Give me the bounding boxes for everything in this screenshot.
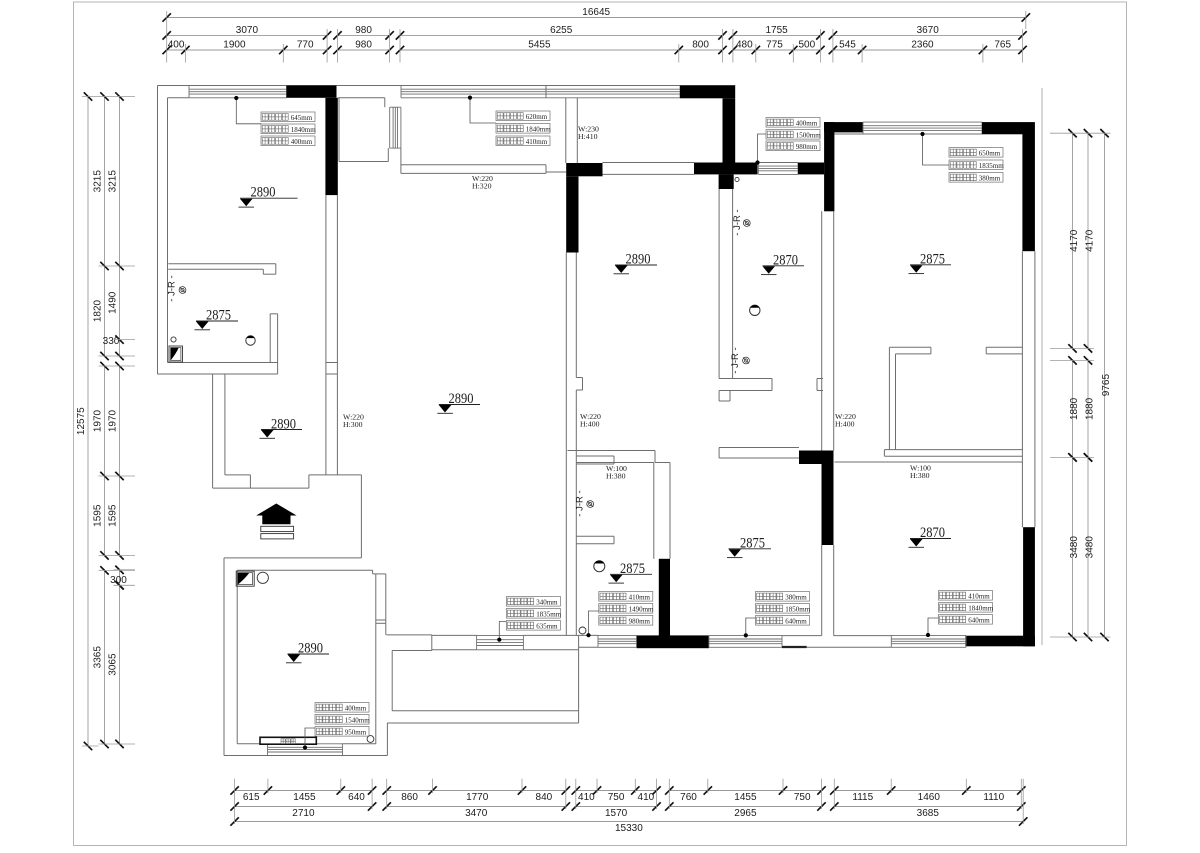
svg-text:775: 775 bbox=[766, 40, 783, 51]
column B1 black bbox=[287, 86, 337, 98]
right dimension extension lines bbox=[1050, 132, 1111, 134]
svg-text:2710: 2710 bbox=[292, 808, 315, 819]
svg-text:635mm: 635mm bbox=[536, 622, 558, 630]
right dimension overall 9765 bbox=[1104, 133, 1106, 637]
svg-text:12575: 12575 bbox=[76, 407, 87, 435]
bathroom1 door symbol bbox=[169, 346, 183, 362]
right dimension outer chains 4170 1880 3480 bbox=[1087, 133, 1089, 348]
svg-text:650mm: 650mm bbox=[979, 149, 1001, 157]
svg-text:1455: 1455 bbox=[293, 792, 316, 803]
svg-text:1840mm: 1840mm bbox=[526, 125, 551, 133]
labels window W11 bbox=[506, 597, 560, 607]
svg-text:860: 860 bbox=[401, 792, 418, 803]
right outer auxiliary line bbox=[1041, 88, 1043, 645]
wall central notch bbox=[576, 377, 582, 379]
svg-text:645mm: 645mm bbox=[291, 114, 313, 122]
left dimension inner chain bbox=[119, 97, 121, 357]
column B8 black bbox=[799, 451, 834, 465]
svg-text:840: 840 bbox=[536, 792, 553, 803]
labels window W5 bbox=[949, 148, 1003, 158]
column B9 black T bbox=[637, 635, 709, 648]
svg-text:1490mm: 1490mm bbox=[629, 605, 654, 613]
svg-text:1970: 1970 bbox=[93, 409, 104, 432]
wall bedroom3-4 divider pair lower bbox=[821, 545, 823, 636]
svg-text:410mm: 410mm bbox=[968, 592, 990, 600]
top wall inner line left section bbox=[168, 97, 190, 99]
bottom wall thin segments bbox=[782, 635, 822, 637]
svg-text:16645: 16645 bbox=[582, 7, 610, 18]
svg-text:H:410: H:410 bbox=[578, 132, 598, 141]
kitchen left wall line bbox=[400, 148, 402, 173]
svg-text:6255: 6255 bbox=[550, 25, 573, 36]
labels window W7 bbox=[599, 592, 653, 602]
svg-text:1110: 1110 bbox=[983, 792, 1004, 803]
bathroom1 right wall stub bbox=[269, 314, 271, 363]
svg-text:980: 980 bbox=[355, 25, 372, 36]
svg-text:3480: 3480 bbox=[1069, 536, 1080, 559]
svg-text:1500mm: 1500mm bbox=[796, 131, 821, 139]
svg-text:1755: 1755 bbox=[765, 25, 788, 36]
svg-text:1595: 1595 bbox=[93, 504, 104, 527]
top dimension row 3 bbox=[167, 49, 327, 51]
svg-text:5455: 5455 bbox=[528, 40, 551, 51]
svg-text:640mm: 640mm bbox=[785, 617, 807, 625]
svg-text:400mm: 400mm bbox=[345, 704, 367, 712]
column B2 black bbox=[680, 86, 735, 99]
svg-text:330: 330 bbox=[103, 336, 120, 347]
entry hall right wall bbox=[309, 474, 362, 476]
window kitchen W2 top bbox=[401, 85, 546, 87]
bottom dimension row 1 bbox=[235, 790, 373, 792]
svg-text:1840mm: 1840mm bbox=[968, 604, 993, 612]
svg-text:3215: 3215 bbox=[93, 170, 104, 193]
left exterior wall bbox=[157, 86, 159, 375]
window bedroom4 W9 bbox=[891, 634, 966, 636]
window dining W4 980 sill bbox=[758, 162, 798, 164]
svg-text:1900: 1900 bbox=[223, 40, 246, 51]
window W2b top continuation bbox=[546, 85, 680, 87]
svg-text:765: 765 bbox=[994, 40, 1011, 51]
bathroom1 bottom wall bbox=[168, 362, 278, 364]
svg-text:380mm: 380mm bbox=[979, 174, 1001, 182]
right dimension inner chains 4170 1880 3480 bbox=[1072, 133, 1074, 348]
svg-text:4170: 4170 bbox=[1069, 229, 1080, 252]
column B10 black right bottom corner bbox=[1023, 527, 1035, 646]
bedroom2 ceiling circle bbox=[750, 305, 760, 315]
svg-text:H:320: H:320 bbox=[472, 182, 492, 191]
bathroom2 right walls bbox=[669, 463, 671, 559]
window top-left W1 1900 bbox=[189, 85, 287, 87]
entrance arrow bbox=[256, 504, 296, 525]
svg-text:800: 800 bbox=[692, 40, 709, 51]
svg-text:750: 750 bbox=[608, 792, 625, 803]
svg-text:400mm: 400mm bbox=[796, 119, 818, 127]
bathroom1 top wall bbox=[168, 263, 275, 265]
bottom dimension extension lines bbox=[267, 779, 269, 793]
svg-text:1970: 1970 bbox=[108, 409, 119, 432]
bathroom2 opening lines lower bbox=[576, 535, 614, 537]
svg-text:760: 760 bbox=[680, 792, 697, 803]
svg-text:3065: 3065 bbox=[108, 653, 119, 676]
svg-text:- J-R -: - J-R - bbox=[575, 490, 586, 516]
svg-text:750: 750 bbox=[794, 792, 811, 803]
svg-text:2965: 2965 bbox=[734, 808, 757, 819]
svg-text:545: 545 bbox=[839, 40, 856, 51]
svg-text:640mm: 640mm bbox=[968, 616, 990, 624]
top dimension extension lines bbox=[166, 44, 168, 63]
bottom wall thick segment bbox=[782, 646, 807, 648]
svg-text:4170: 4170 bbox=[1085, 229, 1096, 252]
svg-text:3480: 3480 bbox=[1085, 536, 1096, 559]
closet walls right block bbox=[888, 347, 890, 449]
svg-text:340mm: 340mm bbox=[536, 598, 558, 606]
labels window W9 bbox=[939, 591, 993, 601]
svg-text:3215: 3215 bbox=[108, 170, 119, 193]
exterior top wall outer line bbox=[158, 85, 736, 87]
bay window W3 vertical bbox=[389, 107, 391, 148]
svg-text:H:380: H:380 bbox=[606, 472, 626, 481]
svg-text:1835mm: 1835mm bbox=[979, 162, 1004, 170]
labels window W8 bbox=[756, 592, 810, 602]
column B5 black with arm bbox=[824, 122, 834, 211]
labels window W4 bbox=[766, 118, 820, 128]
bathroom2 top wall bbox=[568, 450, 656, 452]
entry door symbol bbox=[236, 571, 254, 586]
svg-text:400mm: 400mm bbox=[291, 138, 313, 146]
svg-text:1880: 1880 bbox=[1085, 397, 1096, 420]
column B7 black kitchen right bbox=[566, 163, 602, 176]
corridor right wall pair bbox=[325, 195, 327, 475]
svg-text:410mm: 410mm bbox=[526, 138, 548, 146]
bedroom2 drain circle bbox=[735, 177, 739, 181]
svg-text:1835mm: 1835mm bbox=[536, 610, 561, 618]
svg-text:620mm: 620mm bbox=[526, 113, 548, 121]
wall bedroom2 bottom bbox=[719, 378, 772, 380]
svg-text:3670: 3670 bbox=[917, 25, 940, 36]
svg-text:1880: 1880 bbox=[1069, 397, 1080, 420]
wall segment left of W7 bbox=[579, 634, 598, 636]
right exterior wall thin section bbox=[1021, 251, 1023, 527]
bottom dimension row 2 bbox=[235, 806, 373, 808]
svg-text:980mm: 980mm bbox=[796, 143, 818, 151]
bay recess outline bbox=[338, 97, 385, 99]
svg-text:1540mm: 1540mm bbox=[345, 716, 370, 724]
bathroom2 toilet bbox=[594, 561, 605, 572]
svg-text:1460: 1460 bbox=[918, 792, 941, 803]
svg-text:15330: 15330 bbox=[615, 823, 643, 834]
wall notch bedroom2 right bbox=[817, 378, 823, 380]
svg-text:615: 615 bbox=[243, 792, 260, 803]
svg-text:380mm: 380mm bbox=[785, 593, 807, 601]
wall kitchen right divider pair bbox=[565, 98, 567, 163]
column B3 black bbox=[694, 163, 758, 175]
window bathroom2 W7 bbox=[598, 634, 637, 636]
svg-text:3365: 3365 bbox=[93, 646, 104, 669]
labels window W1 bbox=[261, 112, 315, 122]
top dimension row 1 overall 16645 bbox=[167, 17, 1026, 19]
svg-text:980: 980 bbox=[355, 40, 372, 51]
svg-text:H:400: H:400 bbox=[580, 420, 600, 429]
top dimension row 2 bbox=[167, 34, 327, 36]
master bedroom walls bbox=[223, 558, 225, 756]
svg-text:1850mm: 1850mm bbox=[785, 605, 810, 613]
wall bedroom2 left pair bbox=[718, 189, 720, 379]
bathroom1 floor drain bbox=[171, 337, 176, 342]
window W11 bbox=[477, 634, 524, 636]
svg-text:400: 400 bbox=[168, 40, 185, 51]
svg-text:- J-R -: - J-R - bbox=[167, 275, 178, 301]
svg-text:3070: 3070 bbox=[236, 25, 259, 36]
window master W10 bbox=[268, 743, 343, 745]
left dimension extension lines bbox=[99, 96, 136, 98]
column B6 black corner bbox=[982, 122, 1035, 134]
svg-text:1490: 1490 bbox=[108, 291, 119, 314]
master bedroom drain circle bbox=[367, 736, 374, 743]
svg-text:2890: 2890 bbox=[271, 417, 296, 433]
svg-text:1770: 1770 bbox=[466, 792, 489, 803]
bathroom2 door opening lines upper bbox=[576, 455, 614, 457]
svg-text:410: 410 bbox=[638, 792, 655, 803]
svg-text:9765: 9765 bbox=[1101, 374, 1112, 397]
window top-right W5 bbox=[863, 121, 982, 123]
svg-text:410: 410 bbox=[578, 792, 595, 803]
svg-text:410mm: 410mm bbox=[629, 593, 651, 601]
svg-text:1570: 1570 bbox=[605, 808, 628, 819]
left dimension overall 12575 bbox=[87, 97, 89, 747]
svg-text:770: 770 bbox=[297, 40, 314, 51]
svg-text:- J-R -: - J-R - bbox=[732, 209, 743, 235]
svg-text:1840mm: 1840mm bbox=[291, 126, 316, 134]
closet bottom wall bbox=[884, 449, 1022, 451]
column B4 black bbox=[798, 163, 824, 175]
corridor left wall pair bbox=[212, 374, 214, 488]
svg-text:- J-R -: - J-R - bbox=[730, 347, 741, 373]
svg-text:980mm: 980mm bbox=[629, 617, 651, 625]
bottom dimension row 3 overall 15330 bbox=[235, 821, 1024, 823]
labels window W2 bbox=[496, 111, 550, 121]
svg-text:950mm: 950mm bbox=[345, 728, 367, 736]
svg-text:640: 640 bbox=[348, 792, 365, 803]
svg-text:H:300: H:300 bbox=[343, 420, 363, 429]
svg-text:1820: 1820 bbox=[93, 299, 104, 322]
left dimension outer chain bbox=[104, 97, 106, 357]
svg-text:1595: 1595 bbox=[108, 504, 119, 527]
entry floor circle bbox=[257, 572, 268, 583]
labels window W10 bbox=[315, 703, 369, 713]
svg-text:500: 500 bbox=[798, 40, 815, 51]
wardrobe cabinet master bedroom bbox=[260, 737, 316, 744]
svg-text:1455: 1455 bbox=[734, 792, 757, 803]
svg-text:480: 480 bbox=[736, 40, 753, 51]
entry hall bottom / master bedroom top wall bbox=[224, 557, 361, 559]
wall bedroom3 top bbox=[719, 447, 799, 449]
kitchen bottom wall bbox=[401, 164, 546, 166]
svg-text:H:380: H:380 bbox=[910, 471, 930, 480]
top-right room top wall inner line bbox=[834, 133, 1022, 135]
wall central vertical pair bbox=[565, 253, 567, 636]
svg-text:2360: 2360 bbox=[911, 40, 934, 51]
wall under hall with window W11 bbox=[432, 634, 477, 636]
svg-text:1115: 1115 bbox=[852, 792, 873, 803]
svg-text:3470: 3470 bbox=[465, 808, 488, 819]
svg-text:H:400: H:400 bbox=[835, 420, 855, 429]
wall bedroom2-3 divider pair upper bbox=[821, 211, 823, 450]
window bedroom3 W8 bbox=[709, 634, 782, 636]
bathroom2 drain bbox=[579, 627, 586, 634]
svg-text:3685: 3685 bbox=[917, 808, 940, 819]
wall dining top y162-174 bbox=[603, 162, 695, 164]
service balcony step outline bbox=[386, 634, 431, 636]
bathroom1 toilet bbox=[246, 336, 255, 345]
